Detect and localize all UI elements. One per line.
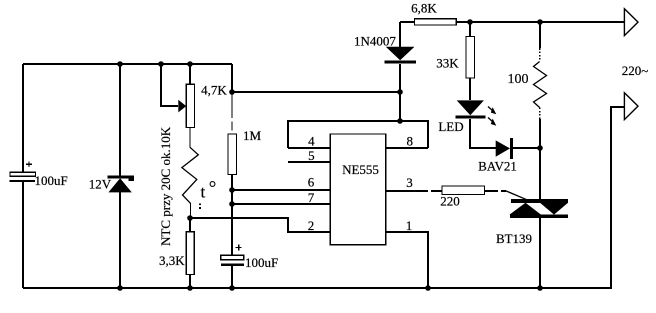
svg-text:3: 3	[406, 175, 413, 190]
svg-text:BAV21: BAV21	[478, 159, 517, 174]
svg-text:12V: 12V	[89, 177, 112, 192]
svg-text:NE555: NE555	[342, 162, 379, 177]
svg-text:100uF: 100uF	[245, 255, 278, 270]
svg-text:LED: LED	[438, 119, 463, 134]
svg-text:7: 7	[308, 190, 315, 205]
svg-text:5: 5	[308, 148, 315, 163]
svg-text:100: 100	[508, 72, 529, 87]
svg-text:3,3K: 3,3K	[159, 253, 185, 268]
svg-text:NTC przy 20C ok.10K: NTC przy 20C ok.10K	[158, 126, 173, 246]
svg-text:2: 2	[308, 218, 315, 233]
svg-text:t: t	[201, 182, 206, 201]
svg-text:4,7K: 4,7K	[201, 83, 227, 98]
svg-text:220: 220	[440, 194, 460, 209]
svg-text:8: 8	[406, 134, 413, 149]
svg-text:4: 4	[308, 134, 315, 149]
svg-text:1M: 1M	[243, 128, 262, 143]
svg-text:1N4007: 1N4007	[354, 34, 396, 49]
svg-text:33K: 33K	[436, 56, 459, 71]
svg-text:BT139: BT139	[496, 231, 532, 246]
svg-text:100uF: 100uF	[35, 173, 68, 188]
svg-text:6,8K: 6,8K	[411, 1, 437, 16]
svg-text:220~: 220~	[622, 63, 649, 78]
svg-text:1: 1	[406, 218, 413, 233]
svg-text:6: 6	[308, 175, 315, 190]
